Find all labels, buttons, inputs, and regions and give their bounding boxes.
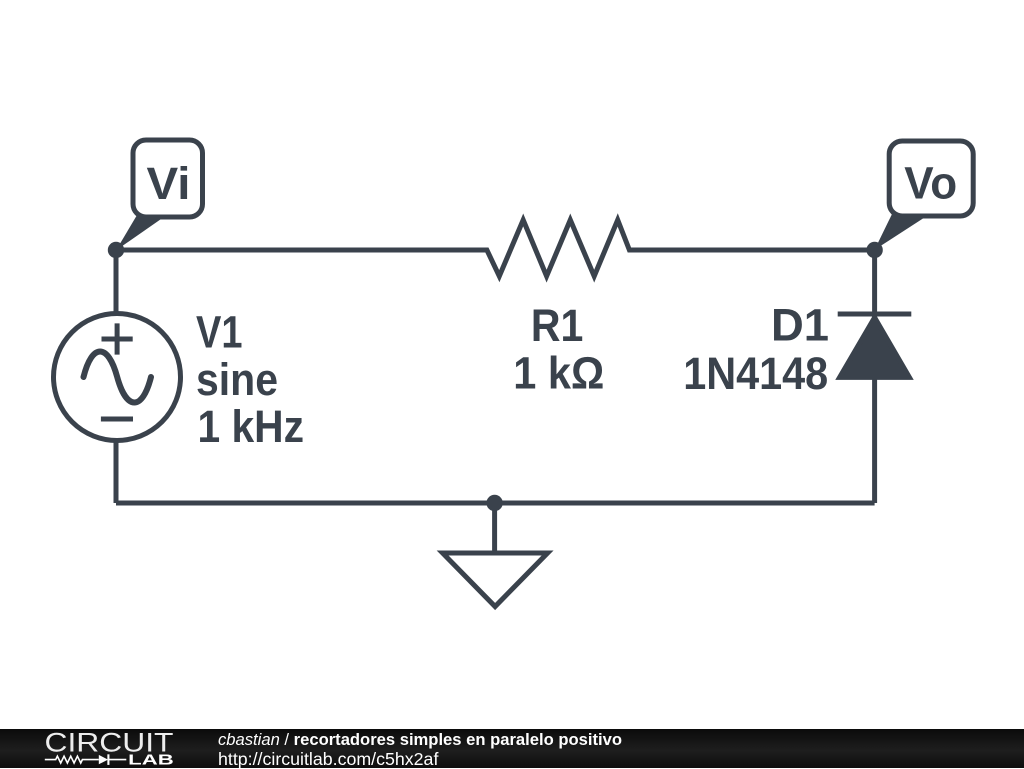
wire bottom rail (116, 501, 875, 506)
svg-text:1 kHz: 1 kHz (198, 401, 305, 452)
node Vo flag (875, 141, 974, 250)
wire left vertical (Vi node to V1 and V1 to bottom rail) (114, 250, 119, 503)
node Vi flag (116, 140, 203, 250)
svg-text:D1: D1 (771, 300, 829, 351)
label V1 name (196, 307, 243, 358)
svg-text:1 kΩ: 1 kΩ (513, 347, 604, 398)
svg-text:V1: V1 (196, 307, 243, 358)
svg-text:Vi: Vi (147, 158, 191, 209)
label R1 name (531, 300, 584, 351)
wire top (Vi node to resistor, resistor to Vo node, with R1 zigzag) (116, 220, 875, 276)
footer banner (0, 729, 1024, 768)
label R1 value 1 kOhm (513, 347, 604, 398)
wire right vertical (Vo node through D1 to bottom rail) (872, 250, 877, 503)
svg-text:1N4148: 1N4148 (683, 348, 828, 399)
label D1 name (771, 300, 829, 351)
voltage source V1 (54, 314, 181, 441)
svg-text:R1: R1 (531, 300, 584, 351)
resistor R1 (116, 220, 875, 276)
label V1 value 1 kHz (198, 401, 305, 452)
label Vo (904, 158, 957, 209)
svg-text:LAB: LAB (128, 751, 174, 768)
junction node Vi (108, 242, 124, 258)
label V1 type sine (196, 354, 278, 405)
footer title text (218, 731, 622, 768)
junction node ground (486, 495, 502, 511)
diode D1 (838, 314, 912, 377)
CircuitLab logo (0, 729, 200, 768)
ground (443, 503, 548, 607)
label D1 value 1N4148 (683, 348, 828, 399)
svg-text:sine: sine (196, 354, 278, 405)
label Vi (147, 158, 191, 209)
junction node Vo (866, 242, 882, 258)
svg-text:Vo: Vo (904, 158, 957, 209)
